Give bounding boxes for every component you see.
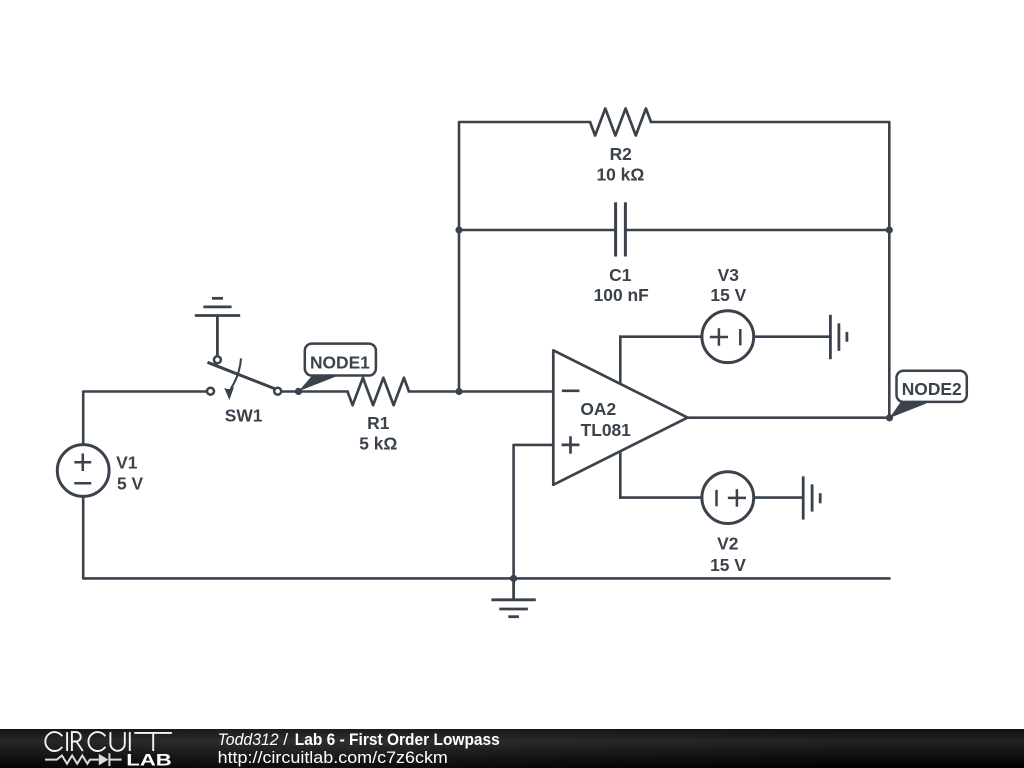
voltage source V1 <box>57 445 109 497</box>
wire C1 row left <box>459 229 616 232</box>
svg-text:OA2: OA2 <box>580 399 616 419</box>
logo resistor-diode squiggle <box>45 753 122 766</box>
junction at C1 row right <box>886 226 893 233</box>
svg-text:LAB: LAB <box>126 752 172 768</box>
junction at ground/bottom row <box>510 575 517 582</box>
capacitor C1 <box>616 202 626 256</box>
footer bar <box>0 729 1024 768</box>
junction at feedback/C1 row left <box>455 226 462 233</box>
svg-text:15 V: 15 V <box>710 285 746 305</box>
resistor R1 <box>348 378 410 405</box>
wire V3 to ground <box>755 335 830 338</box>
ground at bottom center <box>491 578 535 616</box>
wire V2 to ground <box>755 496 803 499</box>
svg-text:http://circuitlab.com/c7z6ckm: http://circuitlab.com/c7z6ckm <box>218 748 448 767</box>
logo CIRCUIT wordmark <box>45 732 172 751</box>
voltage source V2 <box>702 472 754 524</box>
wire op-amp V+ pin <box>619 337 622 390</box>
op-amp inverting marker <box>562 389 580 392</box>
label R2 value <box>597 144 645 184</box>
wire C1 row right <box>625 229 889 232</box>
svg-text:V2: V2 <box>717 534 738 554</box>
op-amp non-inverting marker <box>562 436 580 453</box>
svg-text:V3: V3 <box>718 265 740 285</box>
wire NODE1 to R1 <box>282 390 347 393</box>
svg-text:5 kΩ: 5 kΩ <box>359 433 397 453</box>
svg-text:SW1: SW1 <box>225 406 263 426</box>
svg-text:C1: C1 <box>609 265 632 285</box>
wire V3 left <box>620 335 700 338</box>
svg-text:Todd312: Todd312 <box>218 730 279 749</box>
junction at feedback/input row <box>455 388 462 395</box>
svg-text:15 V: 15 V <box>710 555 746 575</box>
svg-text:TL081: TL081 <box>581 420 632 440</box>
svg-text:V1: V1 <box>116 453 138 473</box>
wire op-amp output <box>688 416 890 419</box>
wire non-inverting input to ground junction <box>514 445 554 579</box>
label V2 value <box>710 534 746 575</box>
svg-text:/: / <box>283 730 288 749</box>
wire top row right of R2 and right vertical <box>651 122 889 418</box>
label V1 value <box>116 453 143 494</box>
svg-text:R2: R2 <box>610 144 632 164</box>
svg-text:10 kΩ: 10 kΩ <box>597 164 645 184</box>
wire op-amp V- pin <box>619 445 622 498</box>
svg-text:NODE1: NODE1 <box>310 352 370 372</box>
wire V2 left <box>620 496 700 499</box>
svg-text:100 nF: 100 nF <box>594 285 649 305</box>
wire R1 to op-amp inverting input <box>409 390 553 393</box>
voltage source V3 <box>702 311 754 363</box>
op-amp OA2 <box>553 350 687 485</box>
ground right of V2 <box>803 476 820 519</box>
switch SW1 <box>207 356 281 400</box>
label V3 value <box>710 265 746 305</box>
node NODE2 <box>886 371 967 422</box>
wire V1 bottom vertical and bottom row <box>83 498 889 579</box>
label OA2 TL081 <box>580 399 631 440</box>
node NODE1 <box>295 344 376 395</box>
wire V1 to SW1 with top vertical <box>83 392 206 444</box>
label R1 value <box>359 413 397 453</box>
wire feedback left vertical and top row left of R2 <box>459 122 590 392</box>
svg-text:NODE2: NODE2 <box>902 379 962 399</box>
svg-text:R1: R1 <box>367 413 390 433</box>
svg-text:5 V: 5 V <box>117 473 144 493</box>
ground right of V3 <box>830 315 847 359</box>
ground above SW1 <box>195 298 240 355</box>
label C1 value <box>594 265 649 305</box>
svg-text:Lab 6 - First Order Lowpass: Lab 6 - First Order Lowpass <box>295 730 500 749</box>
resistor R2 <box>590 109 651 136</box>
